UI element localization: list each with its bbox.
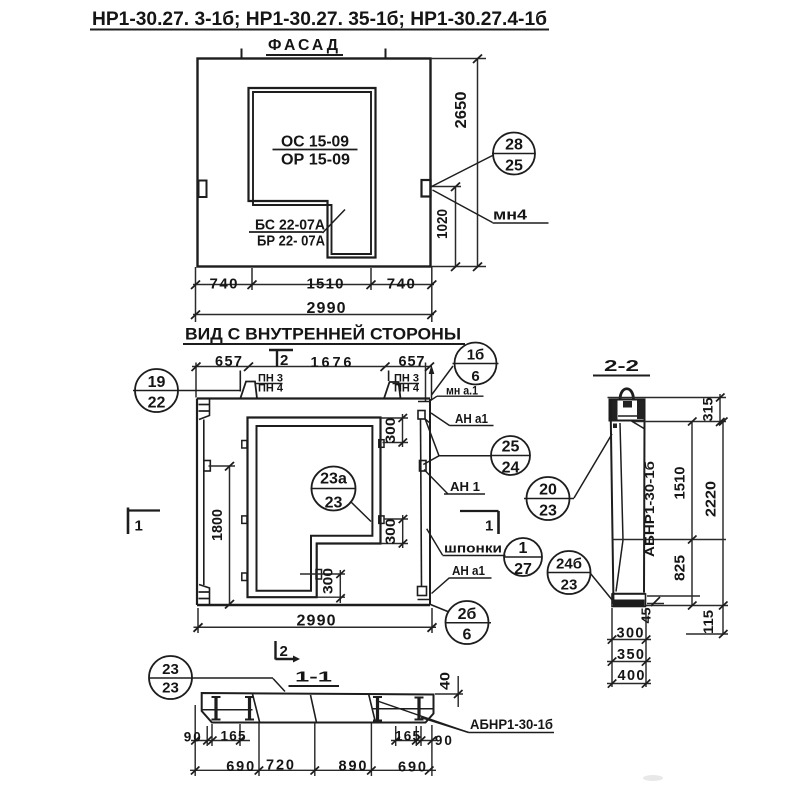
svg-text:2990: 2990 xyxy=(307,300,346,317)
svg-text:23: 23 xyxy=(162,661,179,678)
svg-text:1: 1 xyxy=(135,518,143,535)
svg-text:23: 23 xyxy=(162,680,179,697)
svg-text:ОР 15-09: ОР 15-09 xyxy=(281,152,350,169)
svg-text:23: 23 xyxy=(325,495,343,512)
faint scan smudge bottom right xyxy=(643,775,663,781)
svg-text:40: 40 xyxy=(438,672,453,690)
svg-text:28: 28 xyxy=(505,137,523,154)
section 2-2: leader circle 24б/23 to bottom block xyxy=(591,574,614,602)
section 2-2: lifting loop xyxy=(620,389,634,400)
inner view: window opening outer contour xyxy=(248,418,381,598)
svg-text:АН а1: АН а1 xyxy=(455,412,488,426)
facade: label ОС 15-09 / ОР 15-09 xyxy=(273,134,358,169)
section 1-1: title xyxy=(289,669,340,687)
svg-text:ВИД С ВНУТРЕННЕЙ СТОРОНЫ: ВИД С ВНУТРЕННЕЙ СТОРОНЫ xyxy=(185,325,461,344)
inner view: label мн а.1 xyxy=(437,386,484,398)
svg-text:825: 825 xyxy=(673,555,689,581)
inner view: position circle 1б/6 xyxy=(453,343,499,386)
svg-text:890: 890 xyxy=(339,758,367,774)
inner view: position circle 23а/23 xyxy=(311,467,357,512)
inner view: corner vertical with up arrow xyxy=(429,365,435,400)
svg-text:657: 657 xyxy=(215,354,242,370)
section 2-2: dimension 115 xyxy=(700,610,728,638)
svg-text:1510: 1510 xyxy=(673,467,689,500)
svg-text:400: 400 xyxy=(618,668,645,684)
svg-text:2б: 2б xyxy=(458,606,477,623)
svg-text:мн4: мн4 xyxy=(493,207,528,224)
inner view: lifting loop lug left (ПН) xyxy=(240,371,257,399)
inner view: position circle 25/24 xyxy=(491,436,530,477)
svg-text:2: 2 xyxy=(280,352,288,369)
section 1-1: slab outline xyxy=(202,693,434,723)
section 1-1: right window jamb slant xyxy=(369,694,376,723)
svg-text:АН а1: АН а1 xyxy=(452,564,485,578)
section 2-2: extension line bottom y=605.5 xyxy=(646,605,728,607)
svg-text:БР 22- 07А: БР 22- 07А xyxy=(257,233,325,250)
section 2-2: dimension 825 xyxy=(673,555,697,610)
section 2-2: dimension 45 xyxy=(639,596,701,624)
svg-text:АБНР1-30-1б: АБНР1-30-1б xyxy=(643,461,657,557)
section 2-2: panel web right edge xyxy=(643,421,646,593)
svg-text:740: 740 xyxy=(387,276,415,293)
svg-text:2650: 2650 xyxy=(453,91,470,128)
facade: embed plate right edge (МН4) xyxy=(422,180,431,197)
svg-text:1510: 1510 xyxy=(307,276,344,293)
inner view: top-right corner bracket xyxy=(418,402,430,424)
section 2-2: dimension 2220 xyxy=(704,418,728,635)
section 1-1: position circle 23/23 xyxy=(149,656,192,699)
section 2-2: web inner line lower taper xyxy=(616,540,623,592)
section 1-1: dimensions row 165/90 right xyxy=(391,725,452,776)
facade: position circle 28/25 xyxy=(492,133,535,175)
section 1-1: left window jamb slant xyxy=(253,694,260,723)
inner view: leader АН а1 top xyxy=(431,413,450,426)
svg-text:24: 24 xyxy=(502,460,520,477)
svg-text:350: 350 xyxy=(617,647,644,663)
svg-text:2-2: 2-2 xyxy=(604,358,639,375)
section 1-1: dimensions row 90/165 left xyxy=(184,705,250,776)
svg-text:шпонки: шпонки xyxy=(444,541,502,556)
inner view: window key blocks left edge xyxy=(242,441,247,449)
svg-text:24б: 24б xyxy=(556,556,582,573)
facade: top edge loop tick right xyxy=(385,49,387,59)
inner view: label шпонки xyxy=(443,541,506,556)
section 1-1: left embed channel bars xyxy=(212,697,255,720)
inner view: section mark 2 bottom xyxy=(276,641,301,663)
svg-text:300: 300 xyxy=(383,519,398,545)
facade: embed plate left edge xyxy=(199,181,207,198)
inner view: label АН а1 top xyxy=(450,412,494,426)
section 1-1: left mid line xyxy=(202,709,253,711)
inner view: key block on left panel edge xyxy=(204,461,211,472)
svg-text:90: 90 xyxy=(184,730,201,745)
facade: dimension 1020 xyxy=(432,183,462,272)
svg-text:90: 90 xyxy=(435,733,452,748)
svg-text:НР1-30.27. 3-1б; НР1-30.27. 3: НР1-30.27. 3-1б; НР1-30.27. 35-1б; НР1-3… xyxy=(92,9,547,30)
facade: dimension 2990 xyxy=(191,300,436,319)
inner view: dimension 300 middle right xyxy=(381,515,409,548)
inner view: position circle 19/22 xyxy=(135,369,178,412)
inner view: key block on right panel edge xyxy=(420,461,427,472)
svg-text:ФАСАД: ФАСАД xyxy=(268,37,341,54)
svg-text:690: 690 xyxy=(398,759,426,775)
section 1-1: dimension 40 xyxy=(435,672,463,707)
inner view: leader АН а1 bottom xyxy=(432,578,450,594)
svg-text:1020: 1020 xyxy=(434,209,451,239)
inner view: leader circle 19/22 to left lug xyxy=(133,390,240,392)
svg-text:27: 27 xyxy=(514,561,532,578)
section 1-1: middle step slant xyxy=(311,695,317,723)
inner view: left edge inner line xyxy=(203,420,205,586)
svg-text:19: 19 xyxy=(148,374,166,391)
svg-text:1800: 1800 xyxy=(209,509,226,541)
inner view: panel outline xyxy=(197,399,430,606)
svg-text:690: 690 xyxy=(226,759,254,775)
section 2-2: bottom width dims extension verticals xyxy=(611,608,613,687)
section 2-2: dimension 300 bottom xyxy=(607,626,651,644)
inner view: dimension 1800 xyxy=(209,462,236,609)
svg-text:23: 23 xyxy=(539,503,557,520)
inner view: leader circle 25/24 xyxy=(423,419,491,465)
inner view: dimension 300 bottom xyxy=(300,568,345,603)
title: panel marks list xyxy=(90,9,549,30)
inner view: window key blocks right edge xyxy=(379,440,384,448)
svg-text:25: 25 xyxy=(505,158,523,175)
section 2-2: extension line top (y=398) xyxy=(608,397,727,399)
facade: panel outline xyxy=(198,59,431,267)
svg-text:1: 1 xyxy=(519,540,528,557)
section 2-2: dimension 400 bottom xyxy=(607,668,651,688)
svg-text:БС 22-07А: БС 22-07А xyxy=(255,217,325,234)
svg-text:ПН 4: ПН 4 xyxy=(394,383,420,395)
inner view: window key block on step edge xyxy=(316,570,322,580)
svg-text:25: 25 xyxy=(502,439,520,456)
inner view: dimension 2990 xyxy=(194,608,437,633)
section 2-2: leader circle 20/23 to top block xyxy=(574,434,612,498)
svg-text:2990: 2990 xyxy=(297,613,336,630)
inner view: section mark 2 top xyxy=(269,350,293,369)
section 2-2: web inner line upper xyxy=(620,423,623,540)
facade: leader from БС label to window step xyxy=(323,210,346,234)
svg-text:АН 1: АН 1 xyxy=(450,480,480,494)
section 1-1: label АБНР1-30-1б xyxy=(469,717,554,733)
section 2-2: title xyxy=(593,358,650,376)
svg-text:300: 300 xyxy=(383,418,398,444)
svg-text:115: 115 xyxy=(700,610,716,634)
section 2-2: bottom block with embedded plate xyxy=(612,594,646,607)
svg-text:300: 300 xyxy=(321,568,336,594)
section 1-1: dimensions row 690/720/890/690 xyxy=(190,724,436,777)
facade: leader мн4 to embed xyxy=(433,190,493,223)
section 2-2: division line 1510/825 xyxy=(613,539,727,541)
inner view: position circle 2б/6 xyxy=(446,601,492,644)
svg-text:1-1: 1-1 xyxy=(295,669,332,686)
inner view: leader circle 1б/6 to panel corner xyxy=(432,366,454,395)
section 2-2: panel web left edge xyxy=(611,400,614,605)
section 2-2: block-to-web transition diagonal xyxy=(632,421,645,429)
inner view: label ПН3/ПН4 right xyxy=(393,373,420,395)
inner view: top dimension 657 1676 657 xyxy=(192,354,435,402)
svg-text:ОС 15-09: ОС 15-09 xyxy=(281,134,349,151)
inner view: bottom-left corner bracket xyxy=(199,585,210,606)
svg-text:23а: 23а xyxy=(320,471,347,488)
section 1-1: right mid line xyxy=(372,708,433,710)
inner view: label АН а1 bottom xyxy=(450,564,492,578)
inner view: label ПН3/ПН4 left xyxy=(256,373,284,395)
inner view: lifting loop lug right (ПН) xyxy=(384,371,401,399)
facade: label мн4 xyxy=(493,207,549,224)
svg-text:315: 315 xyxy=(701,397,716,422)
inner view: section mark 1 right xyxy=(460,511,499,535)
section 2-2: position circle 24б/23 xyxy=(548,551,591,594)
section 2-2: extension line y=421.5 xyxy=(634,421,726,423)
svg-text:300: 300 xyxy=(617,626,644,642)
svg-text:2: 2 xyxy=(280,643,288,660)
section 2-2: small anchor square below block xyxy=(613,424,617,429)
facade: window opening outer contour xyxy=(249,88,376,258)
inner view: leader мн а.1 xyxy=(431,396,438,400)
svg-text:1б: 1б xyxy=(467,347,485,364)
section 2-2: dimension 315 xyxy=(701,394,725,427)
inner view: top-left corner bracket xyxy=(199,399,210,420)
section 2-2: dimension 1510 xyxy=(673,418,697,606)
facade: top edge loop tick left xyxy=(241,49,243,59)
section 1-1: right embed channel bars xyxy=(373,697,424,721)
inner view: label АН 1 xyxy=(444,480,485,494)
inner view: leader circle 23а/23 to right key xyxy=(351,502,371,522)
inner view: section mark 1 left xyxy=(128,508,160,535)
facade: label БС 22-07А / БР 22-07А xyxy=(249,217,325,250)
svg-text:165: 165 xyxy=(221,729,246,744)
svg-text:6: 6 xyxy=(463,627,472,644)
svg-text:ПН 4: ПН 4 xyxy=(258,383,284,395)
svg-text:1: 1 xyxy=(485,518,493,535)
section 2-2: extension line y=634 xyxy=(686,633,728,635)
inner view: bottom-right corner bracket xyxy=(418,587,431,600)
facade: window opening inner contour xyxy=(253,92,371,254)
inner view: leader шпонки xyxy=(427,529,443,555)
svg-text:22: 22 xyxy=(148,395,166,412)
inner view: right edge inner line xyxy=(421,420,422,587)
title: ВИД С ВНУТРЕННЕЙ СТОРОНЫ xyxy=(183,325,465,345)
inner view: leader circle 2б/6 xyxy=(431,605,450,613)
facade: bottom dimensions 740 1510 740 xyxy=(191,267,436,322)
svg-text:165: 165 xyxy=(395,729,420,744)
title: ФАСАД xyxy=(266,37,343,55)
section 2-2: position circle 20/23 xyxy=(524,477,574,520)
inner view: leader АН 1 xyxy=(424,470,448,494)
section 1-1: leaders АБНР label xyxy=(376,701,469,733)
svg-text:20: 20 xyxy=(539,482,557,499)
section 2-2: top rib block with embedded channel xyxy=(610,400,645,421)
svg-text:720: 720 xyxy=(266,758,294,774)
inner view: dimension 300 top right xyxy=(381,414,409,447)
section 1-1: leader circle 23/23 xyxy=(149,678,285,692)
svg-text:23: 23 xyxy=(561,577,578,594)
svg-text:657: 657 xyxy=(399,354,425,370)
inner view: window opening inner contour xyxy=(257,426,373,591)
inner view: position circle 1/27 xyxy=(504,538,542,578)
svg-text:740: 740 xyxy=(210,276,238,293)
svg-text:АБНР1-30-1б: АБНР1-30-1б xyxy=(470,717,553,732)
section 2-2: dimension 350 bottom xyxy=(607,647,651,666)
svg-text:2220: 2220 xyxy=(704,481,720,517)
facade: dimension 2650 right side xyxy=(431,55,487,272)
facade: leader circle 28/25 to embed xyxy=(432,155,494,187)
svg-text:6: 6 xyxy=(471,368,479,385)
